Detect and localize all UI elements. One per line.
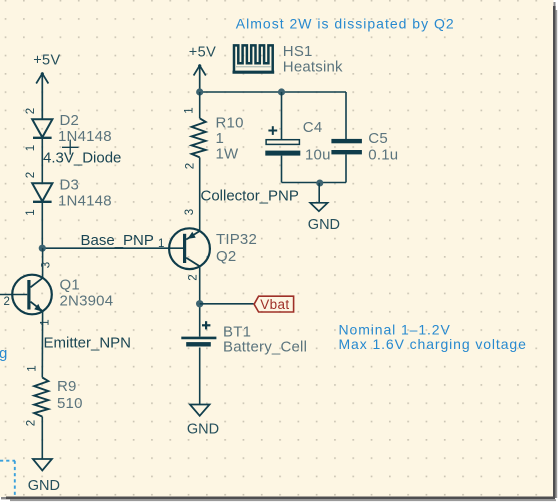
- capacitor C4: [265, 126, 300, 155]
- wire R10 to Q2: [199, 157, 201, 231]
- heatsink HS1: [233, 45, 275, 72]
- wire C4 branch: [281, 92, 283, 140]
- svg-text:1: 1: [216, 130, 225, 147]
- svg-text:1: 1: [27, 365, 39, 371]
- svg-text:C4: C4: [303, 119, 323, 136]
- screenshot border bottom: [1, 497, 556, 502]
- ground (center): [190, 405, 210, 416]
- svg-text:1N4148: 1N4148: [58, 128, 112, 145]
- svg-text:10u: 10u: [305, 147, 331, 164]
- junction GND: [316, 180, 323, 187]
- diode D3: [32, 183, 52, 202]
- power +5V (center): [194, 66, 206, 93]
- svg-text:1: 1: [158, 238, 164, 250]
- svg-text:Emitter_NPN: Emitter_NPN: [44, 335, 132, 352]
- svg-text:Almost 2W is dissipated by Q2: Almost 2W is dissipated by Q2: [236, 16, 455, 32]
- wire Base_PNP horizontal: [42, 247, 183, 249]
- svg-text:510: 510: [57, 395, 83, 412]
- svg-text:2N3904: 2N3904: [60, 293, 114, 310]
- junction Vbat: [196, 300, 203, 307]
- battery BT1: [181, 321, 216, 346]
- screenshot border right: [553, 2, 557, 498]
- junction at +5V: [196, 88, 203, 95]
- global label Vbat: [254, 296, 294, 312]
- svg-text:2: 2: [25, 108, 37, 114]
- svg-text:Q1: Q1: [60, 277, 80, 294]
- svg-text:2: 2: [185, 163, 197, 169]
- svg-text:4.3V_Diode: 4.3V_Diode: [43, 150, 121, 167]
- transistor Q2: [169, 228, 210, 269]
- resistor R10: [192, 118, 206, 157]
- label anchor cross: [62, 140, 79, 155]
- svg-text:1W: 1W: [216, 146, 240, 163]
- svg-text:2: 2: [4, 296, 10, 308]
- wire D3 to junction: [41, 202, 43, 248]
- svg-text:3: 3: [184, 209, 196, 215]
- svg-text:+5V: +5V: [33, 53, 60, 69]
- ground (caps): [318, 183, 320, 203]
- svg-text:1: 1: [40, 319, 52, 325]
- top wire: [200, 91, 346, 93]
- svg-text:Heatsink: Heatsink: [283, 59, 343, 76]
- svg-text:1: 1: [25, 145, 37, 151]
- svg-text:+5V: +5V: [189, 45, 216, 61]
- wire Q2 emitter down to junction: [199, 266, 201, 336]
- svg-text:C5: C5: [368, 130, 388, 147]
- svg-text:g: g: [0, 345, 7, 362]
- svg-text:3: 3: [40, 262, 52, 268]
- svg-text:Base_PNP: Base_PNP: [81, 232, 154, 249]
- transistor Q1: [0, 275, 52, 315]
- svg-text:Max 1.6V charging voltage: Max 1.6V charging voltage: [339, 336, 527, 352]
- svg-text:Collector_PNP: Collector_PNP: [201, 187, 299, 204]
- svg-text:Battery_Cell: Battery_Cell: [223, 339, 307, 356]
- svg-text:Q2: Q2: [216, 248, 236, 265]
- bottom wire C4-C5: [282, 182, 347, 184]
- wire battery to GND: [199, 348, 201, 405]
- svg-text:0.1u: 0.1u: [368, 147, 398, 164]
- junction base: [39, 245, 46, 252]
- svg-text:Vbat: Vbat: [260, 297, 289, 312]
- wire C5 to bottom: [345, 154, 347, 182]
- wire junction to R10: [199, 92, 201, 118]
- svg-text:D3: D3: [60, 177, 80, 194]
- power +5V (left): [36, 74, 48, 120]
- junction at C4: [278, 88, 285, 95]
- wire C5 branch: [345, 92, 347, 139]
- wire Q1 emitter down: [41, 311, 43, 377]
- svg-text:GND: GND: [187, 421, 219, 437]
- svg-text:GND: GND: [28, 478, 60, 494]
- svg-text:2: 2: [26, 420, 38, 426]
- svg-text:HS1: HS1: [283, 43, 313, 60]
- svg-text:R9: R9: [57, 378, 77, 395]
- svg-text:2: 2: [188, 274, 200, 280]
- selection dashed box corner: [0, 461, 15, 497]
- wire D2 to D3: [41, 138, 43, 183]
- svg-text:D2: D2: [60, 112, 80, 129]
- svg-text:R10: R10: [216, 115, 244, 132]
- wire C4 to bottom: [281, 156, 283, 183]
- ground (left): [33, 459, 52, 471]
- capacitor C5: [331, 139, 362, 155]
- svg-text:1N4148: 1N4148: [58, 193, 112, 210]
- svg-text:GND: GND: [308, 217, 340, 233]
- wire junction to Q1 collector: [42, 248, 44, 278]
- wire R9 to GND: [41, 417, 43, 459]
- resistor R9: [34, 378, 48, 417]
- diode D2: [32, 119, 52, 138]
- svg-text:1: 1: [184, 107, 196, 113]
- svg-text:1: 1: [25, 209, 37, 215]
- wire to Vbat: [200, 303, 254, 305]
- svg-text:2: 2: [25, 172, 37, 178]
- svg-text:TIP32: TIP32: [216, 231, 257, 248]
